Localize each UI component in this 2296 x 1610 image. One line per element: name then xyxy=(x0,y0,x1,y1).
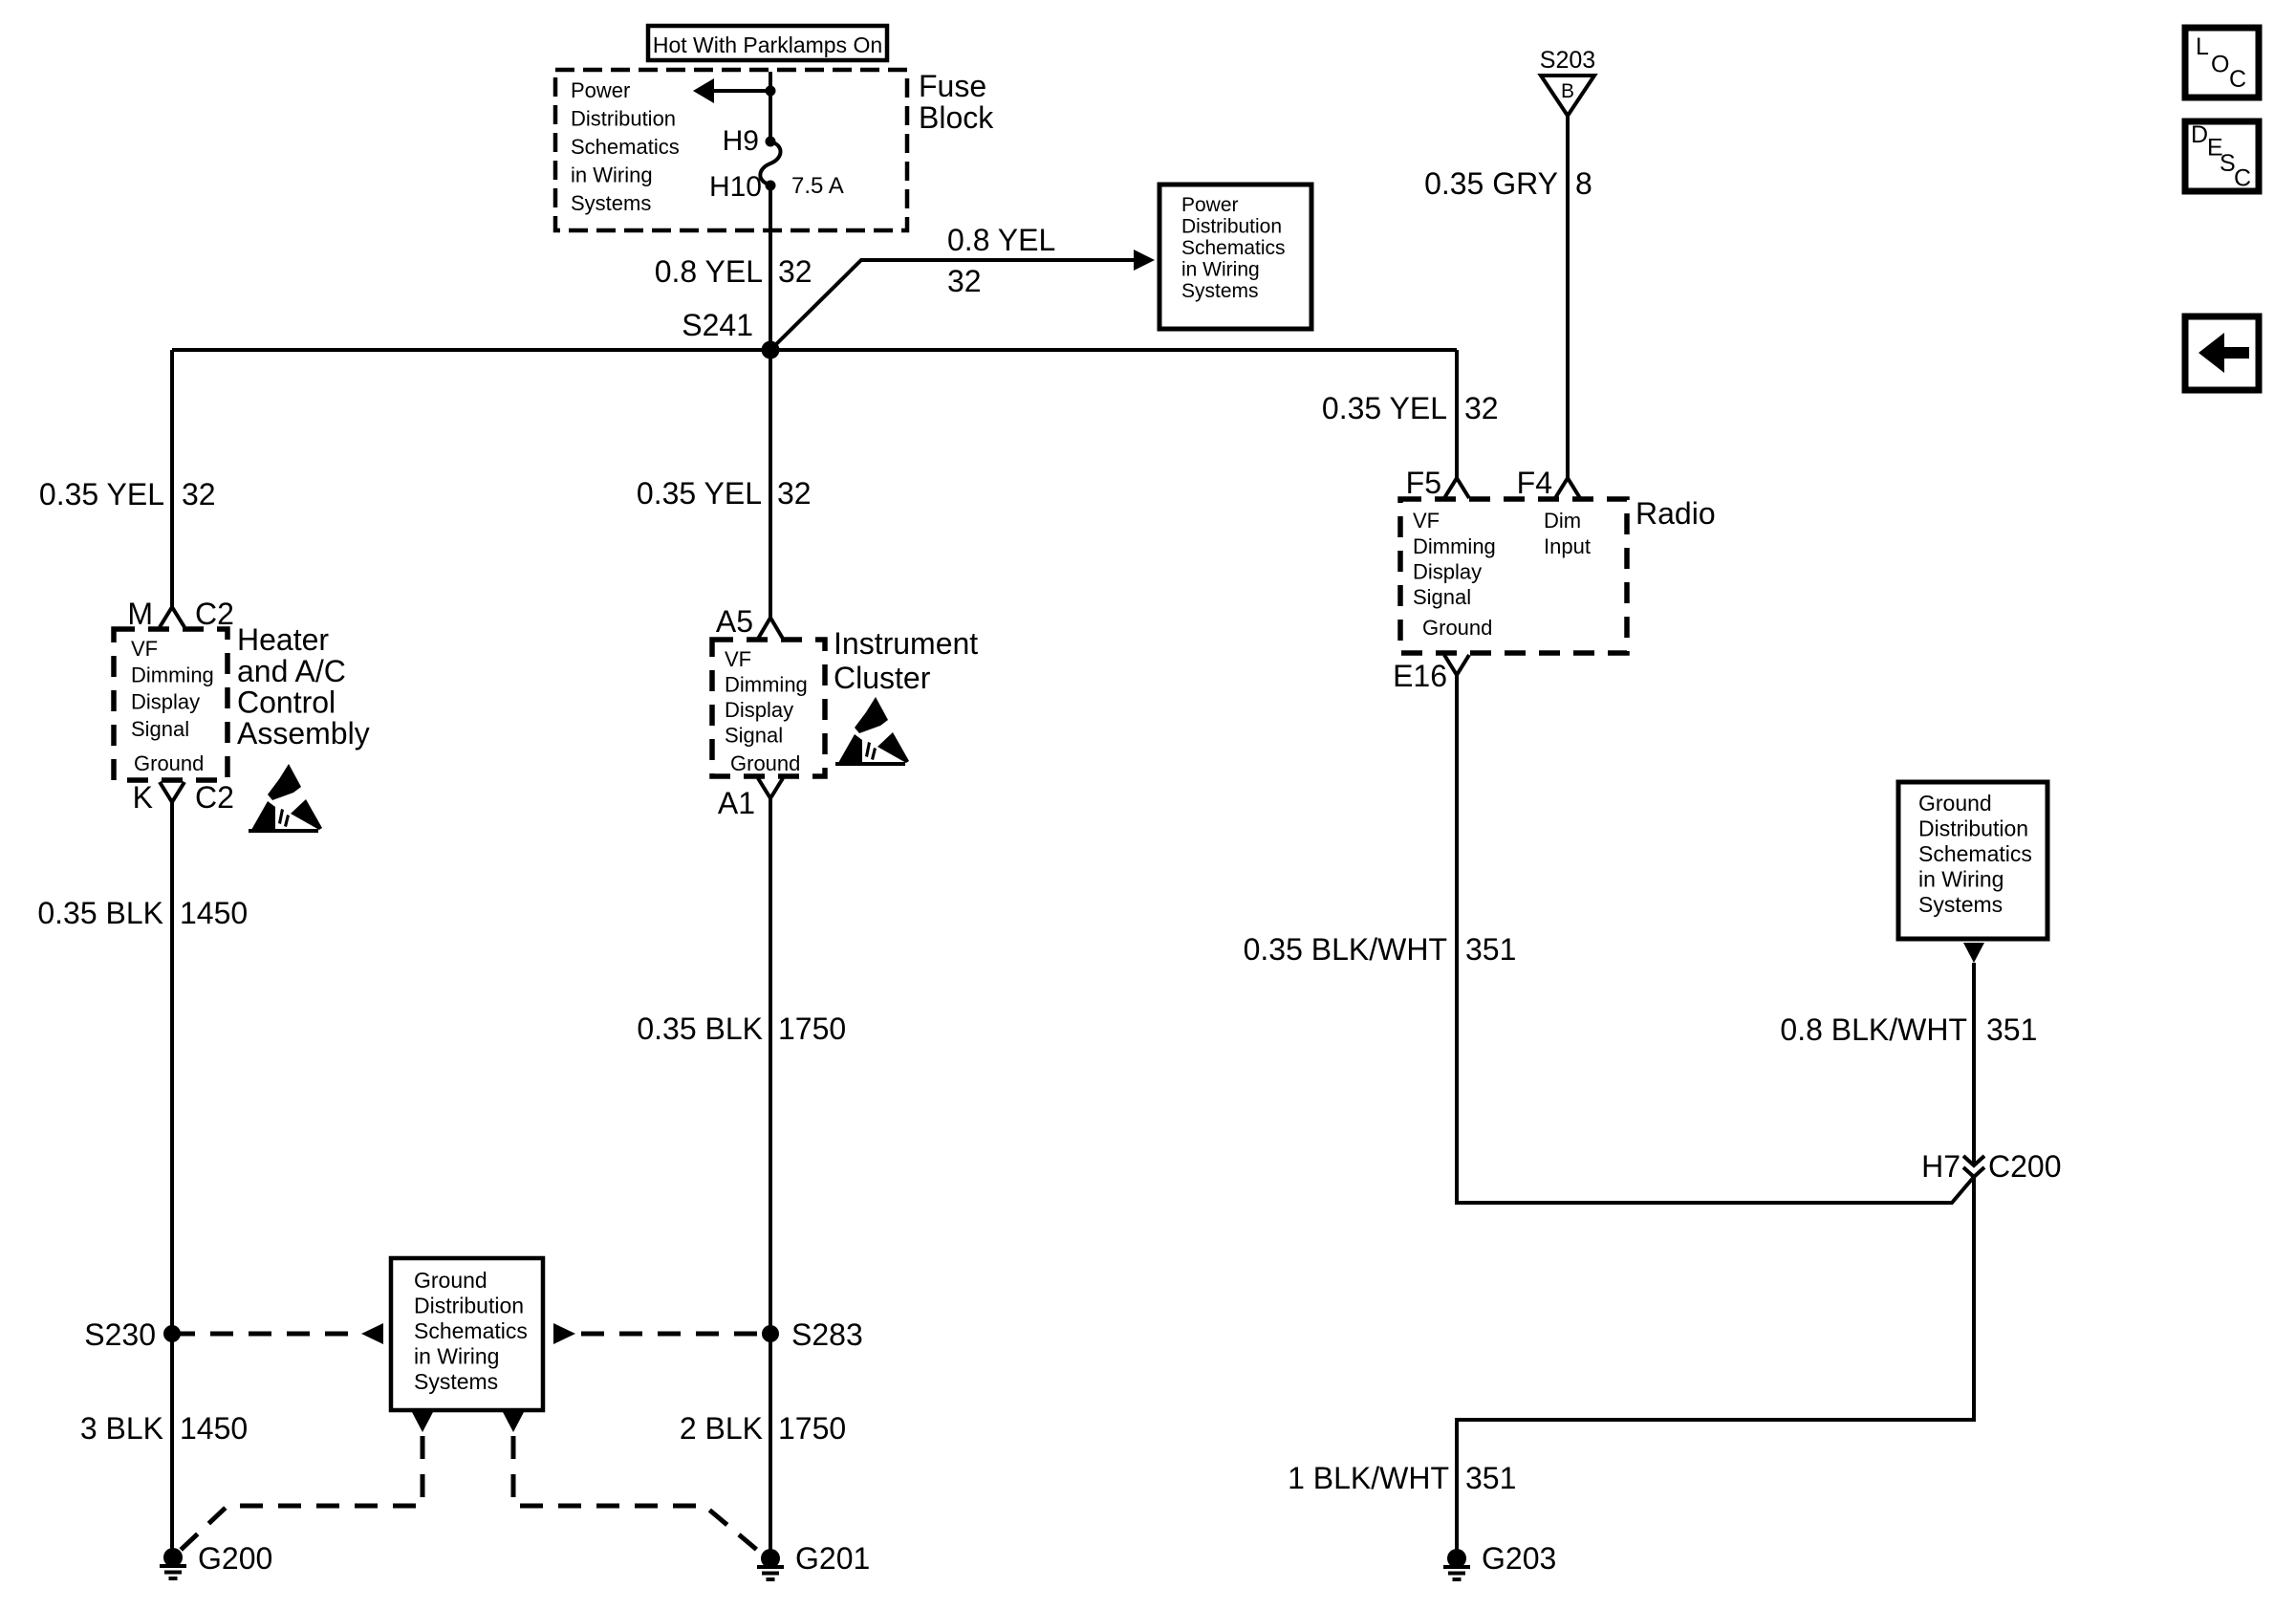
svg-text:Schematics: Schematics xyxy=(414,1318,528,1343)
svg-text:H10: H10 xyxy=(709,171,762,203)
svg-text:S203: S203 xyxy=(1540,47,1595,74)
svg-text:Display: Display xyxy=(725,698,793,722)
svg-text:F4: F4 xyxy=(1517,466,1552,500)
svg-text:1 BLK/WHT: 1 BLK/WHT xyxy=(1288,1461,1449,1495)
svg-text:0.35 BLK: 0.35 BLK xyxy=(37,896,163,930)
svg-text:Instrument: Instrument xyxy=(834,626,978,661)
svg-text:L: L xyxy=(2196,33,2209,60)
svg-text:Display: Display xyxy=(131,690,200,714)
svg-text:Systems: Systems xyxy=(571,191,651,215)
svg-text:G203: G203 xyxy=(1482,1541,1556,1576)
svg-text:0.35 BLK/WHT: 0.35 BLK/WHT xyxy=(1244,932,1447,967)
svg-text:C: C xyxy=(2229,66,2246,93)
svg-text:Distribution: Distribution xyxy=(414,1294,524,1318)
svg-text:Schematics: Schematics xyxy=(1181,237,1286,259)
svg-text:Fuse: Fuse xyxy=(919,69,986,103)
svg-text:Ground: Ground xyxy=(414,1268,487,1293)
svg-text:in Wiring: in Wiring xyxy=(414,1344,499,1369)
svg-text:C: C xyxy=(2234,165,2251,192)
svg-text:Heater: Heater xyxy=(237,622,329,657)
svg-text:C2: C2 xyxy=(195,780,234,815)
svg-text:Display: Display xyxy=(1413,560,1482,584)
svg-text:D: D xyxy=(2191,121,2208,148)
svg-text:32: 32 xyxy=(182,477,216,511)
svg-text:Signal: Signal xyxy=(725,724,783,748)
svg-text:O: O xyxy=(2211,52,2229,78)
svg-text:A5: A5 xyxy=(716,604,753,639)
svg-text:0.35 BLK: 0.35 BLK xyxy=(637,1012,763,1046)
svg-text:H7: H7 xyxy=(1921,1149,1960,1184)
svg-text:1450: 1450 xyxy=(180,1411,248,1446)
svg-text:1750: 1750 xyxy=(778,1411,846,1446)
svg-text:E16: E16 xyxy=(1393,659,1447,693)
svg-text:K: K xyxy=(133,780,153,815)
svg-text:32: 32 xyxy=(1464,391,1499,425)
svg-text:Dimming: Dimming xyxy=(725,673,808,697)
svg-text:0.35 YEL: 0.35 YEL xyxy=(39,477,164,511)
svg-text:A1: A1 xyxy=(718,786,755,820)
svg-text:Schematics: Schematics xyxy=(571,135,680,159)
svg-text:Dim: Dim xyxy=(1544,509,1581,533)
svg-text:2 BLK: 2 BLK xyxy=(680,1411,763,1446)
svg-text:Ground: Ground xyxy=(730,751,800,775)
svg-text:in Wiring: in Wiring xyxy=(1918,867,2004,892)
svg-text:Dimming: Dimming xyxy=(1413,534,1496,558)
svg-text:and A/C: and A/C xyxy=(237,654,346,688)
svg-text:C200: C200 xyxy=(1988,1149,2062,1184)
svg-text:Dimming: Dimming xyxy=(131,664,214,687)
svg-text:32: 32 xyxy=(777,476,812,511)
svg-text:Hot With Parklamps On: Hot With Parklamps On xyxy=(653,33,882,57)
svg-text:Systems: Systems xyxy=(1918,892,2003,917)
svg-text:Schematics: Schematics xyxy=(1918,841,2032,866)
svg-text:32: 32 xyxy=(947,264,982,298)
svg-text:Ground: Ground xyxy=(1422,616,1492,640)
svg-text:G201: G201 xyxy=(795,1541,870,1576)
svg-text:B: B xyxy=(1561,80,1574,102)
svg-text:G200: G200 xyxy=(198,1541,272,1576)
svg-text:32: 32 xyxy=(778,254,812,289)
svg-text:Distribution: Distribution xyxy=(1918,816,2028,841)
svg-text:351: 351 xyxy=(1465,932,1516,967)
svg-text:Signal: Signal xyxy=(1413,585,1471,609)
svg-text:1450: 1450 xyxy=(180,896,248,930)
svg-text:Cluster: Cluster xyxy=(834,661,931,695)
svg-text:1750: 1750 xyxy=(778,1012,846,1046)
svg-text:VF: VF xyxy=(1413,509,1440,533)
svg-text:S241: S241 xyxy=(682,308,753,342)
svg-text:0.35 GRY: 0.35 GRY xyxy=(1424,166,1558,201)
svg-text:Distribution: Distribution xyxy=(1181,216,1282,238)
svg-text:8: 8 xyxy=(1575,166,1592,201)
svg-text:C2: C2 xyxy=(195,597,234,631)
svg-text:351: 351 xyxy=(1465,1461,1516,1495)
svg-text:7.5 A: 7.5 A xyxy=(791,173,844,199)
svg-text:351: 351 xyxy=(1986,1012,2037,1047)
svg-text:Systems: Systems xyxy=(414,1369,498,1394)
svg-text:Radio: Radio xyxy=(1635,496,1716,531)
svg-text:0.8 YEL: 0.8 YEL xyxy=(947,223,1055,257)
svg-text:Ground: Ground xyxy=(134,751,204,775)
svg-text:Power: Power xyxy=(1181,194,1239,216)
svg-text:S230: S230 xyxy=(84,1317,156,1352)
svg-text:0.35 YEL: 0.35 YEL xyxy=(1322,391,1447,425)
svg-text:in Wiring: in Wiring xyxy=(571,163,653,187)
svg-text:in Wiring: in Wiring xyxy=(1181,259,1260,281)
svg-text:F5: F5 xyxy=(1406,466,1441,500)
svg-text:Power: Power xyxy=(571,78,630,102)
svg-text:Control: Control xyxy=(237,685,336,720)
svg-text:0.8 BLK/WHT: 0.8 BLK/WHT xyxy=(1780,1012,1967,1047)
svg-text:M: M xyxy=(127,597,153,631)
svg-text:3 BLK: 3 BLK xyxy=(80,1411,163,1446)
svg-text:S283: S283 xyxy=(791,1317,863,1352)
svg-text:Systems: Systems xyxy=(1181,280,1259,302)
svg-text:Signal: Signal xyxy=(131,717,189,741)
svg-text:Distribution: Distribution xyxy=(571,107,676,131)
svg-text:H9: H9 xyxy=(723,125,759,157)
svg-text:Input: Input xyxy=(1544,534,1591,558)
svg-text:Assembly: Assembly xyxy=(237,716,370,751)
svg-text:VF: VF xyxy=(725,647,751,671)
svg-text:0.8 YEL: 0.8 YEL xyxy=(655,254,763,289)
svg-text:Ground: Ground xyxy=(1918,791,1992,816)
svg-text:VF: VF xyxy=(131,637,158,661)
svg-text:Block: Block xyxy=(919,100,994,135)
svg-text:0.35 YEL: 0.35 YEL xyxy=(637,476,762,511)
